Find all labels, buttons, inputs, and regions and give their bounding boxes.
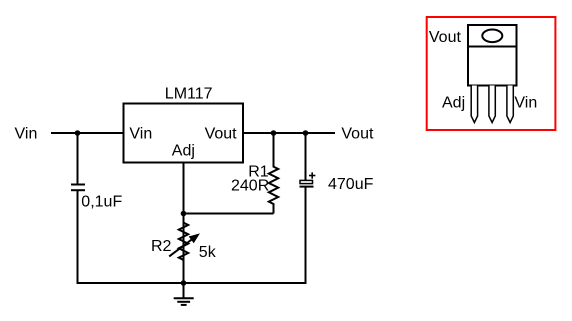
resistor R1 xyxy=(269,133,278,214)
package TO-220 tab xyxy=(468,25,517,47)
label C2 value 470uF xyxy=(328,176,374,193)
svg-text:LM117: LM117 xyxy=(165,86,213,103)
label R2 xyxy=(151,238,172,255)
label U1 LM117 xyxy=(165,86,213,103)
pin label Vout on package xyxy=(429,29,462,46)
pin Adj of U1 xyxy=(172,143,195,160)
svg-text:5k: 5k xyxy=(199,244,217,261)
node Vin label xyxy=(15,126,38,143)
svg-text:Adj: Adj xyxy=(172,143,195,160)
pin label Vin on package xyxy=(514,95,537,112)
package pin 1 leg (Adj) xyxy=(471,86,477,123)
wire ground rail xyxy=(77,282,307,284)
label C1 value 0,1uF xyxy=(81,194,122,211)
wire Adj pin to ground rail xyxy=(183,163,185,284)
svg-text:R2: R2 xyxy=(151,238,172,255)
wire Vout lead xyxy=(243,132,335,134)
pin label Adj on package xyxy=(442,95,465,112)
svg-text:Vout: Vout xyxy=(429,29,462,46)
ground xyxy=(174,283,194,305)
svg-text:Vout: Vout xyxy=(205,126,238,143)
junction Vin node xyxy=(75,130,81,136)
svg-text:Adj: Adj xyxy=(442,95,465,112)
label R2 value 5k xyxy=(199,244,217,261)
svg-text:Vout: Vout xyxy=(341,126,374,143)
svg-text:Vin: Vin xyxy=(514,95,537,112)
callout box TO-220 package xyxy=(427,17,556,130)
wire C1 to ground rail xyxy=(77,190,79,283)
package TO-220 body xyxy=(468,47,517,86)
junction ground node xyxy=(181,280,187,286)
svg-text:240R: 240R xyxy=(231,178,269,195)
label R1 xyxy=(248,164,269,181)
svg-text:Vin: Vin xyxy=(15,126,38,143)
pin Vout of U1 xyxy=(205,126,238,143)
wire R1 bottom to Adj node xyxy=(184,213,274,215)
wire Vin lead xyxy=(51,132,124,134)
label R1 value 240R xyxy=(231,178,269,195)
svg-text:0,1uF: 0,1uF xyxy=(81,194,122,211)
wire Vin node to C1 xyxy=(77,133,79,185)
wire C2 top lead xyxy=(305,133,307,181)
package pin 2 leg (Vout tab pin) xyxy=(489,86,495,123)
IC U1 LM117 body xyxy=(124,104,244,163)
junction C2 top node xyxy=(303,130,309,136)
capacitor C1 xyxy=(71,185,85,191)
pin Vin of U1 xyxy=(129,126,152,143)
junction Adj node xyxy=(181,211,187,217)
node Vout label xyxy=(341,126,374,143)
package pin 3 leg (Vin) xyxy=(507,86,513,123)
package TO-220 mounting hole xyxy=(482,30,502,43)
svg-text:470uF: 470uF xyxy=(328,176,374,193)
potentiometer R2 xyxy=(169,218,199,265)
wire C2 bottom lead xyxy=(305,187,307,284)
capacitor C2 polarized xyxy=(300,172,316,186)
junction R1 top node xyxy=(271,130,277,136)
svg-text:Vin: Vin xyxy=(129,126,152,143)
